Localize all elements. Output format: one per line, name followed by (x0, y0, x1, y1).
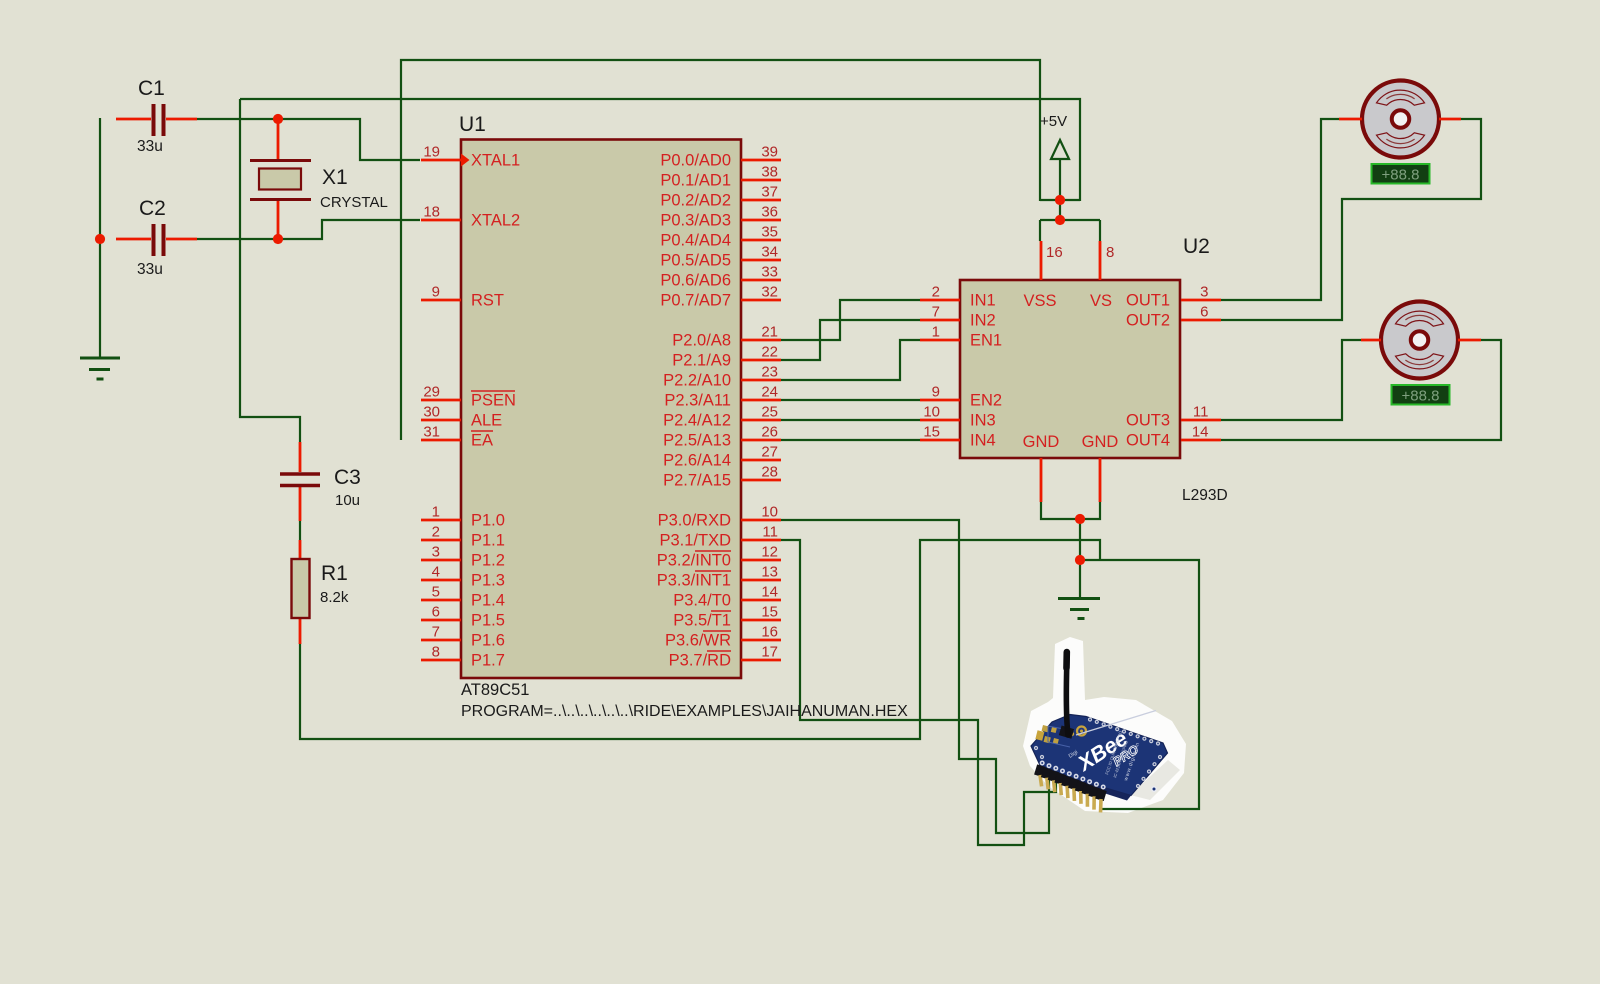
svg-text:P0.6/AD6: P0.6/AD6 (660, 272, 731, 290)
svg-text:P0.5/AD5: P0.5/AD5 (660, 252, 731, 270)
capacitor C3 (280, 442, 361, 521)
ground symbol left (80, 358, 120, 379)
junction dot (1080,519) (1075, 514, 1085, 524)
svg-text:P1.7: P1.7 (471, 652, 505, 670)
svg-text:2: 2 (932, 284, 940, 301)
wire C1 left vertical to ground (99, 118, 101, 358)
svg-text:15: 15 (761, 604, 778, 621)
svg-text:26: 26 (761, 424, 778, 441)
wire +5V to C3 branch (240, 99, 300, 442)
svg-text:39: 39 (761, 144, 778, 161)
svg-text:21: 21 (761, 324, 778, 341)
svg-text:IN3: IN3 (970, 412, 996, 430)
wire C2 right to X1 bottom and XTAL2 (197, 220, 420, 239)
wire C1 right to X1 top and XTAL1 (197, 119, 420, 160)
svg-text:P3.6/WR: P3.6/WR (665, 632, 731, 650)
svg-text:8.2k: 8.2k (320, 589, 349, 606)
svg-text:EN2: EN2 (970, 392, 1002, 410)
svg-text:P2.0/A8: P2.0/A8 (672, 332, 731, 350)
svg-text:9: 9 (932, 384, 940, 401)
wire OUT3 to motor2 left (1221, 340, 1361, 420)
junction dot (278,239) (273, 234, 283, 244)
wire R1 bottom to GND rail (300, 540, 1100, 739)
svg-text:25: 25 (761, 404, 778, 421)
svg-text:8: 8 (1106, 244, 1114, 261)
svg-text:10: 10 (761, 504, 778, 521)
motor M2 (1361, 302, 1481, 379)
svg-text:P3.1/TXD: P3.1/TXD (659, 532, 731, 550)
svg-text:35: 35 (761, 224, 778, 241)
svg-text:OUT3: OUT3 (1126, 412, 1170, 430)
wire P2.3 to EN2 (781, 399, 920, 401)
svg-text:CRYSTAL: CRYSTAL (320, 194, 388, 211)
svg-text:31: 31 (423, 424, 440, 441)
svg-text:RST: RST (471, 292, 504, 310)
svg-text:7: 7 (932, 304, 940, 321)
svg-text:22: 22 (761, 344, 778, 361)
wire U2 GND pins rail (1041, 502, 1100, 519)
svg-text:C2: C2 (139, 197, 166, 220)
XBee photo white background (1023, 637, 1186, 813)
svg-text:P0.7/AD7: P0.7/AD7 (660, 292, 731, 310)
svg-text:AT89C51: AT89C51 (461, 681, 529, 699)
wire OUT2 to motor1 right (1221, 119, 1481, 320)
svg-text:P2.6/A14: P2.6/A14 (663, 452, 731, 470)
wire OUT4 to motor2 right (1221, 340, 1501, 440)
svg-text:5: 5 (432, 584, 440, 601)
svg-text:P1.6: P1.6 (471, 632, 505, 650)
capacitor C2 (116, 197, 197, 278)
wire P3.0/RXD to XBee (781, 520, 1049, 833)
svg-text:P3.5/T1: P3.5/T1 (673, 612, 731, 630)
svg-text:C3: C3 (334, 466, 361, 489)
svg-text:PSEN: PSEN (471, 392, 516, 410)
svg-text:PROGRAM=..\..\..\..\..\..\RIDE: PROGRAM=..\..\..\..\..\..\RIDE\EXAMPLES\… (461, 703, 908, 720)
svg-text:OUT4: OUT4 (1126, 432, 1170, 450)
svg-text:33: 33 (761, 264, 778, 281)
svg-text:GND: GND (1023, 433, 1060, 451)
svg-text:X1: X1 (322, 166, 348, 189)
svg-text:4: 4 (432, 564, 440, 581)
svg-text:7: 7 (432, 624, 440, 641)
svg-text:P2.1/A9: P2.1/A9 (672, 352, 731, 370)
svg-text:ALE: ALE (471, 412, 502, 430)
svg-text:2: 2 (432, 524, 440, 541)
junction dot (1060,200) (1055, 195, 1065, 205)
svg-text:P0.4/AD4: P0.4/AD4 (660, 232, 731, 250)
svg-text:19: 19 (423, 144, 440, 161)
svg-text:P3.0/RXD: P3.0/RXD (658, 512, 731, 530)
svg-text:P3.7/RD: P3.7/RD (669, 652, 731, 670)
svg-text:P1.4: P1.4 (471, 592, 505, 610)
svg-text:OUT1: OUT1 (1126, 292, 1170, 310)
svg-text:10: 10 (923, 404, 940, 421)
svg-text:P1.5: P1.5 (471, 612, 505, 630)
wire +5V symbol stem (1059, 158, 1061, 221)
svg-text:15: 15 (923, 424, 940, 441)
svg-text:P2.7/A15: P2.7/A15 (663, 472, 731, 490)
wire GND junction drop (1079, 519, 1081, 598)
wire OUT1 to motor1 left (1221, 119, 1339, 300)
svg-text:P1.2: P1.2 (471, 552, 505, 570)
crystal X1 (250, 121, 388, 237)
svg-text:29: 29 (423, 384, 440, 401)
display motor1 +88.8 (1372, 164, 1430, 184)
svg-text:P3.4/T0: P3.4/T0 (673, 592, 731, 610)
wire +5V rail upper (1040, 199, 1080, 201)
svg-text:14: 14 (1192, 424, 1209, 441)
svg-text:24: 24 (761, 384, 778, 401)
svg-text:P3.3/INT1: P3.3/INT1 (657, 572, 731, 590)
wire P2.0 to IN1 (781, 300, 920, 340)
junction dot (1080,560) (1075, 555, 1085, 565)
XBee PRO module photo (1031, 652, 1168, 813)
svg-text:IN1: IN1 (970, 292, 996, 310)
svg-text:+88.8: +88.8 (1402, 388, 1440, 405)
wire +5V horizontal y=99 (240, 99, 1080, 201)
svg-text:C1: C1 (138, 77, 165, 100)
microcontroller U1 AT89C51 (421, 113, 908, 720)
svg-text:XTAL1: XTAL1 (471, 152, 520, 170)
svg-text:18: 18 (423, 204, 440, 221)
svg-text:6: 6 (1200, 304, 1208, 321)
svg-text:IN2: IN2 (970, 312, 996, 330)
svg-text:8: 8 (432, 644, 440, 661)
svg-text:17: 17 (761, 644, 778, 661)
svg-text:GND: GND (1082, 433, 1119, 451)
wire GND rail to XBee right pin (1080, 560, 1199, 809)
svg-text:6: 6 (432, 604, 440, 621)
svg-text:P2.2/A10: P2.2/A10 (663, 372, 731, 390)
wire P2.1 to IN2 (781, 320, 920, 360)
capacitor C1 (116, 77, 197, 155)
svg-text:12: 12 (761, 544, 778, 561)
svg-text:XTAL2: XTAL2 (471, 212, 520, 230)
svg-text:EN1: EN1 (970, 332, 1002, 350)
motor M1 (1339, 81, 1461, 158)
svg-text:IN4: IN4 (970, 432, 996, 450)
svg-text:P1.0: P1.0 (471, 512, 505, 530)
svg-text:P0.3/AD3: P0.3/AD3 (660, 212, 731, 230)
motor driver U2 L293D (920, 235, 1228, 504)
svg-text:13: 13 (761, 564, 778, 581)
junction dot (100,239) (95, 234, 105, 244)
svg-text:3: 3 (1200, 284, 1208, 301)
svg-text:1: 1 (432, 504, 440, 521)
svg-text:30: 30 (423, 404, 440, 421)
svg-text:P2.4/A12: P2.4/A12 (663, 412, 731, 430)
wire VSS drop (1039, 220, 1041, 241)
svg-text:VS: VS (1090, 292, 1112, 310)
svg-text:P1.1: P1.1 (471, 532, 505, 550)
svg-text:36: 36 (761, 204, 778, 221)
svg-text:37: 37 (761, 184, 778, 201)
resistor R1 (292, 521, 349, 644)
junction dot (278,119) (273, 114, 283, 124)
svg-text:28: 28 (761, 464, 778, 481)
wire P2.2 to EN1 (781, 340, 920, 380)
svg-text:P2.5/A13: P2.5/A13 (663, 432, 731, 450)
svg-text:P0.2/AD2: P0.2/AD2 (660, 192, 731, 210)
svg-text:33u: 33u (137, 138, 163, 155)
svg-text:+88.8: +88.8 (1382, 167, 1420, 184)
svg-text:OUT2: OUT2 (1126, 312, 1170, 330)
svg-text:3: 3 (432, 544, 440, 561)
wire P2.4 to IN3 (781, 419, 920, 421)
wire P2.5 to IN4 (781, 439, 920, 441)
wire VS drop (1099, 220, 1101, 241)
svg-text:27: 27 (761, 444, 778, 461)
ground symbol U2 (1058, 599, 1100, 619)
display motor2 +88.8 (1392, 385, 1450, 405)
junction dot (1060,220) (1055, 215, 1065, 225)
svg-text:1: 1 (932, 324, 940, 341)
svg-text:9: 9 (432, 284, 440, 301)
svg-text:11: 11 (762, 524, 778, 541)
svg-text:+5V: +5V (1040, 113, 1067, 130)
svg-text:11: 11 (1193, 404, 1209, 421)
svg-text:L293D: L293D (1182, 487, 1228, 504)
svg-text:U1: U1 (459, 113, 486, 136)
svg-text:P1.3: P1.3 (471, 572, 505, 590)
svg-text:VSS: VSS (1023, 292, 1056, 310)
svg-text:EA: EA (471, 432, 493, 450)
svg-text:32: 32 (761, 284, 778, 301)
svg-text:10u: 10u (335, 492, 360, 509)
svg-text:16: 16 (1046, 244, 1063, 261)
svg-text:U2: U2 (1183, 235, 1210, 258)
svg-text:P0.0/AD0: P0.0/AD0 (660, 152, 731, 170)
svg-text:P2.3/A11: P2.3/A11 (664, 392, 731, 410)
svg-text:16: 16 (761, 624, 778, 641)
svg-text:23: 23 (761, 364, 778, 381)
svg-text:P3.2/INT0: P3.2/INT0 (657, 552, 731, 570)
svg-text:34: 34 (761, 244, 778, 261)
svg-text:14: 14 (761, 584, 778, 601)
wire P3.1/TXD to XBee (781, 540, 1056, 845)
svg-text:38: 38 (761, 164, 778, 181)
svg-text:33u: 33u (137, 261, 163, 278)
svg-text:R1: R1 (321, 562, 348, 585)
wire EA to +5V top rail (401, 60, 1040, 440)
wire +5V rail lower (1040, 219, 1100, 221)
+5V power symbol (1040, 113, 1069, 159)
svg-text:P0.1/AD1: P0.1/AD1 (660, 172, 731, 190)
